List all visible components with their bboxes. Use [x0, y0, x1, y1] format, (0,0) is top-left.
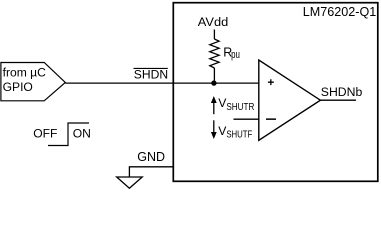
wire comparator output SHDNb — [320, 99, 356, 101]
svg-text:GND: GND — [137, 150, 165, 164]
svg-text:Rpu: Rpu — [223, 45, 240, 61]
junction dot node SHDN — [211, 80, 216, 85]
resistor Rpu — [210, 39, 219, 68]
IC boundary box LM76202-Q1 — [173, 3, 377, 182]
svg-text:ON: ON — [73, 127, 91, 141]
pin - (inverting input marker) — [266, 118, 276, 120]
svg-text:GPIO: GPIO — [3, 80, 33, 94]
comparator U1 — [259, 60, 321, 140]
wire AVdd to resistor — [213, 30, 215, 40]
arrow VSHUTR (rising threshold, up arrow) — [213, 101, 215, 115]
wire resistor to SHDN node — [213, 68, 215, 83]
svg-text:SHDNb: SHDNb — [321, 85, 363, 99]
wire inverting input stub — [234, 118, 259, 120]
svg-text:LM76202-Q1: LM76202-Q1 — [303, 4, 377, 19]
wire SHDN net: pentagon apex to comparator + input — [65, 82, 258, 84]
svg-text:SHDN: SHDN — [134, 68, 168, 82]
svg-text:VSHUTF: VSHUTF — [218, 124, 252, 141]
OFF/ON step waveform — [48, 123, 89, 146]
pin + (non-inverting input marker) — [268, 79, 274, 85]
source block from uC GPIO (pentagon) — [1, 63, 65, 101]
svg-text:from µC: from µC — [3, 65, 47, 79]
svg-text:VSHUTR: VSHUTR — [218, 96, 255, 113]
arrow VSHUTF (falling threshold, down arrow) — [213, 120, 215, 134]
svg-text:AVdd: AVdd — [198, 15, 229, 29]
ground symbol — [117, 177, 143, 188]
svg-text:OFF: OFF — [33, 127, 57, 141]
wire GND pin to ground — [129, 167, 173, 177]
